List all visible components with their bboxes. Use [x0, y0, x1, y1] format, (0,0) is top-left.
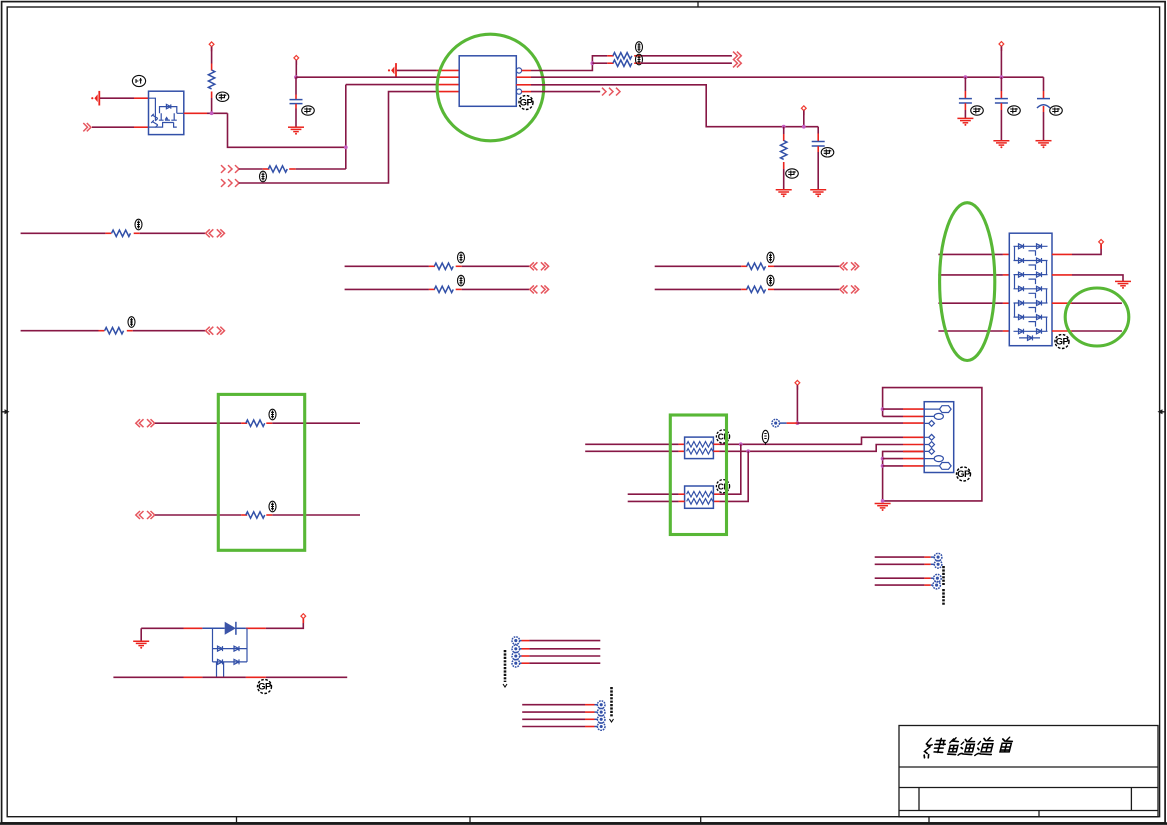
wire row1 — [239, 168, 263, 170]
off-page arrow A14 — [136, 419, 155, 427]
highlight rect resistors — [218, 394, 304, 550]
power pin P6 — [1099, 240, 1104, 249]
designator badge T1 — [762, 430, 768, 445]
wire R4 to off-page — [641, 62, 732, 64]
junction C5 tap — [1000, 75, 1004, 79]
wire P4 down — [1000, 46, 1002, 77]
resistor R9 — [429, 286, 462, 292]
title block — [899, 726, 1158, 817]
wire U1 pin7 to RC filter — [516, 84, 531, 86]
ground GND2 — [776, 190, 792, 198]
off-page arrow A11 — [530, 285, 549, 293]
off-page arrow A6 — [733, 59, 741, 67]
diode array U2 box — [1009, 233, 1052, 346]
designator badge R5 — [786, 169, 799, 178]
wire gbox row1 right — [272, 422, 360, 424]
junction C4 tap — [964, 75, 968, 79]
wire D1 anode net — [141, 627, 183, 629]
wire choke1 in a — [585, 443, 678, 445]
wire grp1 row1 right — [462, 265, 530, 267]
wire U2 in4 — [938, 330, 1003, 332]
wire J1 pin7 — [883, 458, 903, 460]
wire row A right — [140, 232, 206, 234]
resistor R4 — [607, 60, 640, 66]
junction R4 node — [591, 61, 595, 65]
wire flag to U1 pin1 — [397, 69, 437, 71]
resistor R6 — [105, 230, 139, 236]
designator badge R8 — [458, 252, 465, 263]
diode D1 — [202, 622, 246, 635]
wire row B right — [133, 330, 206, 332]
designator badge Q5 — [132, 75, 145, 86]
ground GND4 — [957, 118, 973, 126]
junction node A — [344, 145, 348, 149]
resistor R13 — [241, 512, 272, 518]
wire grp2 row2 — [655, 288, 742, 290]
resistor R2 — [263, 166, 296, 172]
designator badge R2 — [260, 171, 267, 182]
terminal T6 — [597, 701, 605, 709]
terminal T4 — [512, 652, 520, 660]
wire J1 pin8 — [883, 465, 903, 467]
terminal T5 — [512, 659, 520, 667]
transistor network Q2 diodes — [213, 628, 248, 677]
wire U2 out1 to power — [1052, 253, 1072, 255]
power pin P2 — [294, 56, 299, 65]
wire choke2 in a — [628, 493, 679, 495]
wire drop to choke2 out b — [719, 451, 748, 501]
terminal T2 — [512, 637, 520, 645]
off-page arrow A13 — [840, 285, 859, 293]
wire row2 to U1 pin4 — [239, 92, 437, 183]
designator badge U1 GP — [519, 96, 534, 110]
junction J1 pin8 net — [881, 464, 885, 468]
wire U2 out3 — [1052, 302, 1072, 304]
terminal T8 — [597, 716, 605, 724]
designator badge R9 — [458, 275, 465, 286]
highlight ellipse U2 inputs — [940, 203, 995, 361]
terminal T9 — [597, 723, 605, 731]
highlight circle U2 outputs — [1065, 288, 1129, 346]
designator badge C1 — [302, 106, 315, 115]
wire P2 down — [295, 60, 297, 77]
power pin P5 — [795, 380, 800, 389]
wire T5 net — [519, 662, 521, 664]
wire down-right to node A — [228, 113, 346, 147]
designator badge L1 CL — [716, 430, 729, 443]
wire net to Q5 pin1 — [100, 97, 134, 99]
wire P1 to R1 — [211, 47, 213, 64]
wire choke1 in b — [585, 450, 678, 452]
net label text group3 — [942, 566, 945, 606]
wire T9 net — [522, 726, 585, 728]
designator badge R3 — [636, 42, 643, 53]
wire U2 in2 — [938, 274, 1003, 276]
wire node to R4 — [592, 62, 607, 64]
power flag VCC1 — [91, 91, 99, 106]
wire U2 in3 — [938, 302, 1003, 304]
wire U1 out1 to R3/R4 node — [522, 70, 531, 72]
designator badge C2 — [821, 148, 834, 157]
wire choke2 in b — [628, 500, 679, 502]
off-page arrow A12 — [840, 262, 859, 270]
junction node VCC2 — [294, 75, 298, 79]
wire grp1 row2 right — [462, 288, 530, 290]
designator badge R13 — [269, 501, 276, 512]
wire Q5 drain node — [184, 112, 207, 114]
wire T6 net — [522, 704, 585, 706]
wire gbox row2 — [155, 514, 241, 516]
ground GND9 — [140, 628, 142, 640]
wire bottom rail — [113, 676, 183, 678]
resistor R10 — [741, 263, 774, 269]
resistor R7 — [99, 328, 133, 334]
company name text — [923, 737, 1013, 758]
off-page arrow A10 — [530, 262, 549, 270]
wire choke1 out b to J1 pin5 — [713, 450, 719, 452]
terminal T1 — [772, 419, 780, 427]
wire net to Q5 pin2 — [92, 126, 134, 128]
ground GND6 — [1036, 141, 1052, 149]
off-page arrow A4 — [221, 179, 239, 187]
wire gbox row2 right — [272, 514, 360, 516]
wire P5 down — [796, 385, 798, 423]
wire drop to choke2 out a — [719, 444, 740, 494]
choke L1 common-mode — [685, 437, 714, 459]
ground GND5 — [993, 141, 1009, 149]
wire U2 out2 to ground — [1052, 274, 1072, 276]
wire T1 to J1 pin3 — [779, 422, 786, 424]
wire U2 in1 — [938, 253, 1003, 255]
terminal T10 — [934, 553, 942, 561]
resistor R3 — [607, 53, 640, 59]
op-amp U1 box — [459, 56, 516, 107]
junction shield ground — [881, 499, 885, 503]
wire choke1 out a to J1 pin4 — [713, 443, 719, 445]
junction RC a — [782, 125, 786, 129]
connector J1 box — [924, 402, 954, 473]
pin bubble U1 out4 — [516, 89, 521, 94]
off-page arrow IN1 — [83, 123, 91, 131]
transistor Q5 dual-PMOS box — [149, 91, 184, 134]
designator badge R6 — [135, 219, 142, 230]
ground GND3 — [810, 190, 826, 198]
wire R1 to drain node — [211, 98, 213, 113]
power pin P1 — [209, 42, 214, 51]
ground GND1 — [288, 127, 304, 135]
highlight rect chokes — [670, 415, 726, 535]
resistor R12 — [241, 420, 272, 426]
junction J1 pin7 net — [881, 457, 885, 461]
resistor R1 vertical — [208, 64, 214, 99]
terminal T11 — [934, 561, 942, 569]
highlight circle U1 — [437, 34, 544, 141]
wire grp2 row1 — [655, 265, 742, 267]
wire D1 cathode to power — [246, 627, 266, 629]
wire T2 net — [519, 640, 521, 642]
wire grp1 row2 — [345, 288, 429, 290]
designator badge U2 GP — [1055, 335, 1070, 349]
ground GND7 — [875, 504, 891, 512]
wire U1 out4 to arrow — [522, 91, 531, 93]
designator badge L2 CL — [716, 480, 729, 493]
designator badge R4 — [636, 54, 643, 65]
junction P5 net — [796, 421, 800, 425]
wire gbox row1 — [155, 422, 241, 424]
terminal T13 — [933, 581, 941, 589]
net label text group2 — [610, 687, 613, 717]
capacitor C6 polarized — [1037, 77, 1050, 140]
wire T7 net — [522, 711, 585, 713]
wire P3 down — [803, 111, 805, 127]
wire node A riser to U1 pin3 — [345, 85, 347, 169]
wire J1 pin6 down to shield — [883, 451, 925, 501]
terminal T7 — [597, 708, 605, 716]
net label text group1 — [504, 650, 507, 682]
junction choke b — [746, 449, 750, 453]
power pin P4 — [999, 42, 1004, 51]
off-page arrow A3 — [221, 165, 239, 173]
designator badge Q2 GP — [258, 680, 273, 694]
wire grp2 row2 right — [774, 288, 839, 290]
junction RC b — [802, 125, 806, 129]
terminal T12 — [934, 574, 942, 582]
wire R3 to off-page — [641, 55, 732, 57]
wire VCC2 to U1 pin2 — [296, 76, 437, 78]
wire shield loop — [883, 388, 982, 501]
wire row1 to node A — [296, 168, 346, 170]
designator badge J1 GP — [957, 467, 972, 481]
junction Q5 drain — [210, 111, 214, 115]
pin bubble U1 out1 — [516, 68, 521, 73]
terminal T3 — [512, 645, 520, 653]
wire T12 net — [875, 577, 925, 579]
wire T11 net — [875, 563, 925, 565]
wire T13 net — [875, 584, 925, 586]
wire U2 out4 — [1052, 330, 1072, 332]
off-page arrow A8 — [206, 229, 225, 237]
off-page arrow A9 — [206, 327, 225, 335]
wire J1 pin2 — [883, 415, 903, 417]
wire grp2 row1 right — [774, 265, 839, 267]
designator badge R12 — [269, 409, 276, 420]
designator badge C4 — [971, 106, 984, 115]
capacitor C5 — [995, 77, 1008, 140]
wire T10 net — [875, 556, 925, 558]
capacitor C1 — [290, 77, 303, 127]
off-page arrow A7 — [602, 88, 620, 96]
power pin P7 — [301, 614, 306, 623]
designator badge C6 — [1050, 106, 1063, 115]
designator badge R10 — [767, 252, 774, 263]
capacitor C4 — [959, 77, 972, 118]
wire grp1 row1 — [345, 265, 429, 267]
wire T3 net — [519, 648, 521, 650]
designator badge R11 — [767, 275, 774, 286]
power pin P3 — [801, 106, 806, 115]
capacitor C2 to ground — [812, 127, 825, 190]
designator badge C5 — [1008, 106, 1021, 115]
wire row A — [21, 232, 106, 234]
ground GND8 — [1115, 281, 1131, 289]
resistor R8 — [429, 263, 462, 269]
junction J1 pin1 net — [881, 407, 885, 411]
wire J1 pin1 — [883, 408, 903, 410]
wire T8 net — [522, 718, 585, 720]
resistor R11 — [741, 286, 774, 292]
off-page arrow A15 — [136, 511, 155, 519]
resistor R5 vertical to ground — [781, 127, 787, 190]
wire T4 net — [519, 655, 521, 657]
wire U1 pin6 long net VCC4 — [516, 76, 531, 78]
choke L2 common-mode — [685, 486, 714, 508]
junction choke a — [739, 442, 743, 446]
power flag VCC3 — [388, 63, 396, 78]
off-page arrow A5 — [733, 52, 741, 60]
wire row B — [21, 330, 99, 332]
designator badge R1 — [216, 92, 229, 101]
designator badge R7 — [128, 317, 135, 328]
